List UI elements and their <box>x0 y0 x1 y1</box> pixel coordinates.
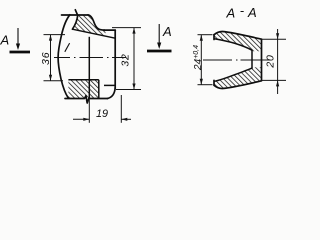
dimension 36 <box>44 35 66 81</box>
break wavy line top <box>72 10 77 29</box>
A-A hole contour <box>215 39 253 82</box>
svg-text:36: 36 <box>40 52 52 65</box>
dimension 24+0,4 <box>198 35 213 85</box>
top edge <box>62 14 89 16</box>
big-end arc (left profile) <box>58 15 70 98</box>
bottom fillet <box>108 88 116 99</box>
svg-text:A: A <box>0 33 9 48</box>
hatch bottom band (broken-out section) <box>68 80 98 99</box>
bottom right inner line <box>104 84 115 86</box>
svg-text:A: A <box>247 5 257 20</box>
svg-text:19: 19 <box>96 108 108 120</box>
svg-text:A: A <box>226 6 236 21</box>
svg-text:A: A <box>162 24 172 39</box>
dimension 20 <box>262 29 287 94</box>
hole bottom line <box>68 79 98 81</box>
stray hatch stroke near arc <box>65 43 70 52</box>
bottom section boundary vertical <box>98 80 100 99</box>
section arrow (right marker) <box>157 24 161 49</box>
flange face vertical <box>88 37 90 98</box>
hatch top band (broken-out section) <box>72 15 105 36</box>
hatch A-A top band <box>214 31 262 51</box>
svg-text:20: 20 <box>264 54 276 68</box>
right edge <box>114 30 116 88</box>
top edge of right portion <box>104 29 115 31</box>
svg-text:32: 32 <box>120 53 132 66</box>
hatch A-A bottom band <box>214 67 262 88</box>
svg-text:-: - <box>240 3 245 18</box>
inner edges <box>65 29 115 98</box>
centerline (axis) <box>54 57 126 59</box>
cutting plane trace (right marker) <box>147 50 172 53</box>
A-A outer contour <box>214 31 262 88</box>
centerline A-A <box>203 59 270 61</box>
bottom edge with V break <box>65 96 108 103</box>
ogee shoulder top right <box>88 15 105 30</box>
cutting plane trace (left marker) <box>10 51 31 54</box>
dimension 32 <box>112 28 141 90</box>
hole top line <box>72 29 115 38</box>
section arrow (left marker) <box>16 28 20 50</box>
part outline <box>58 10 115 103</box>
dimension 19 <box>73 95 131 123</box>
